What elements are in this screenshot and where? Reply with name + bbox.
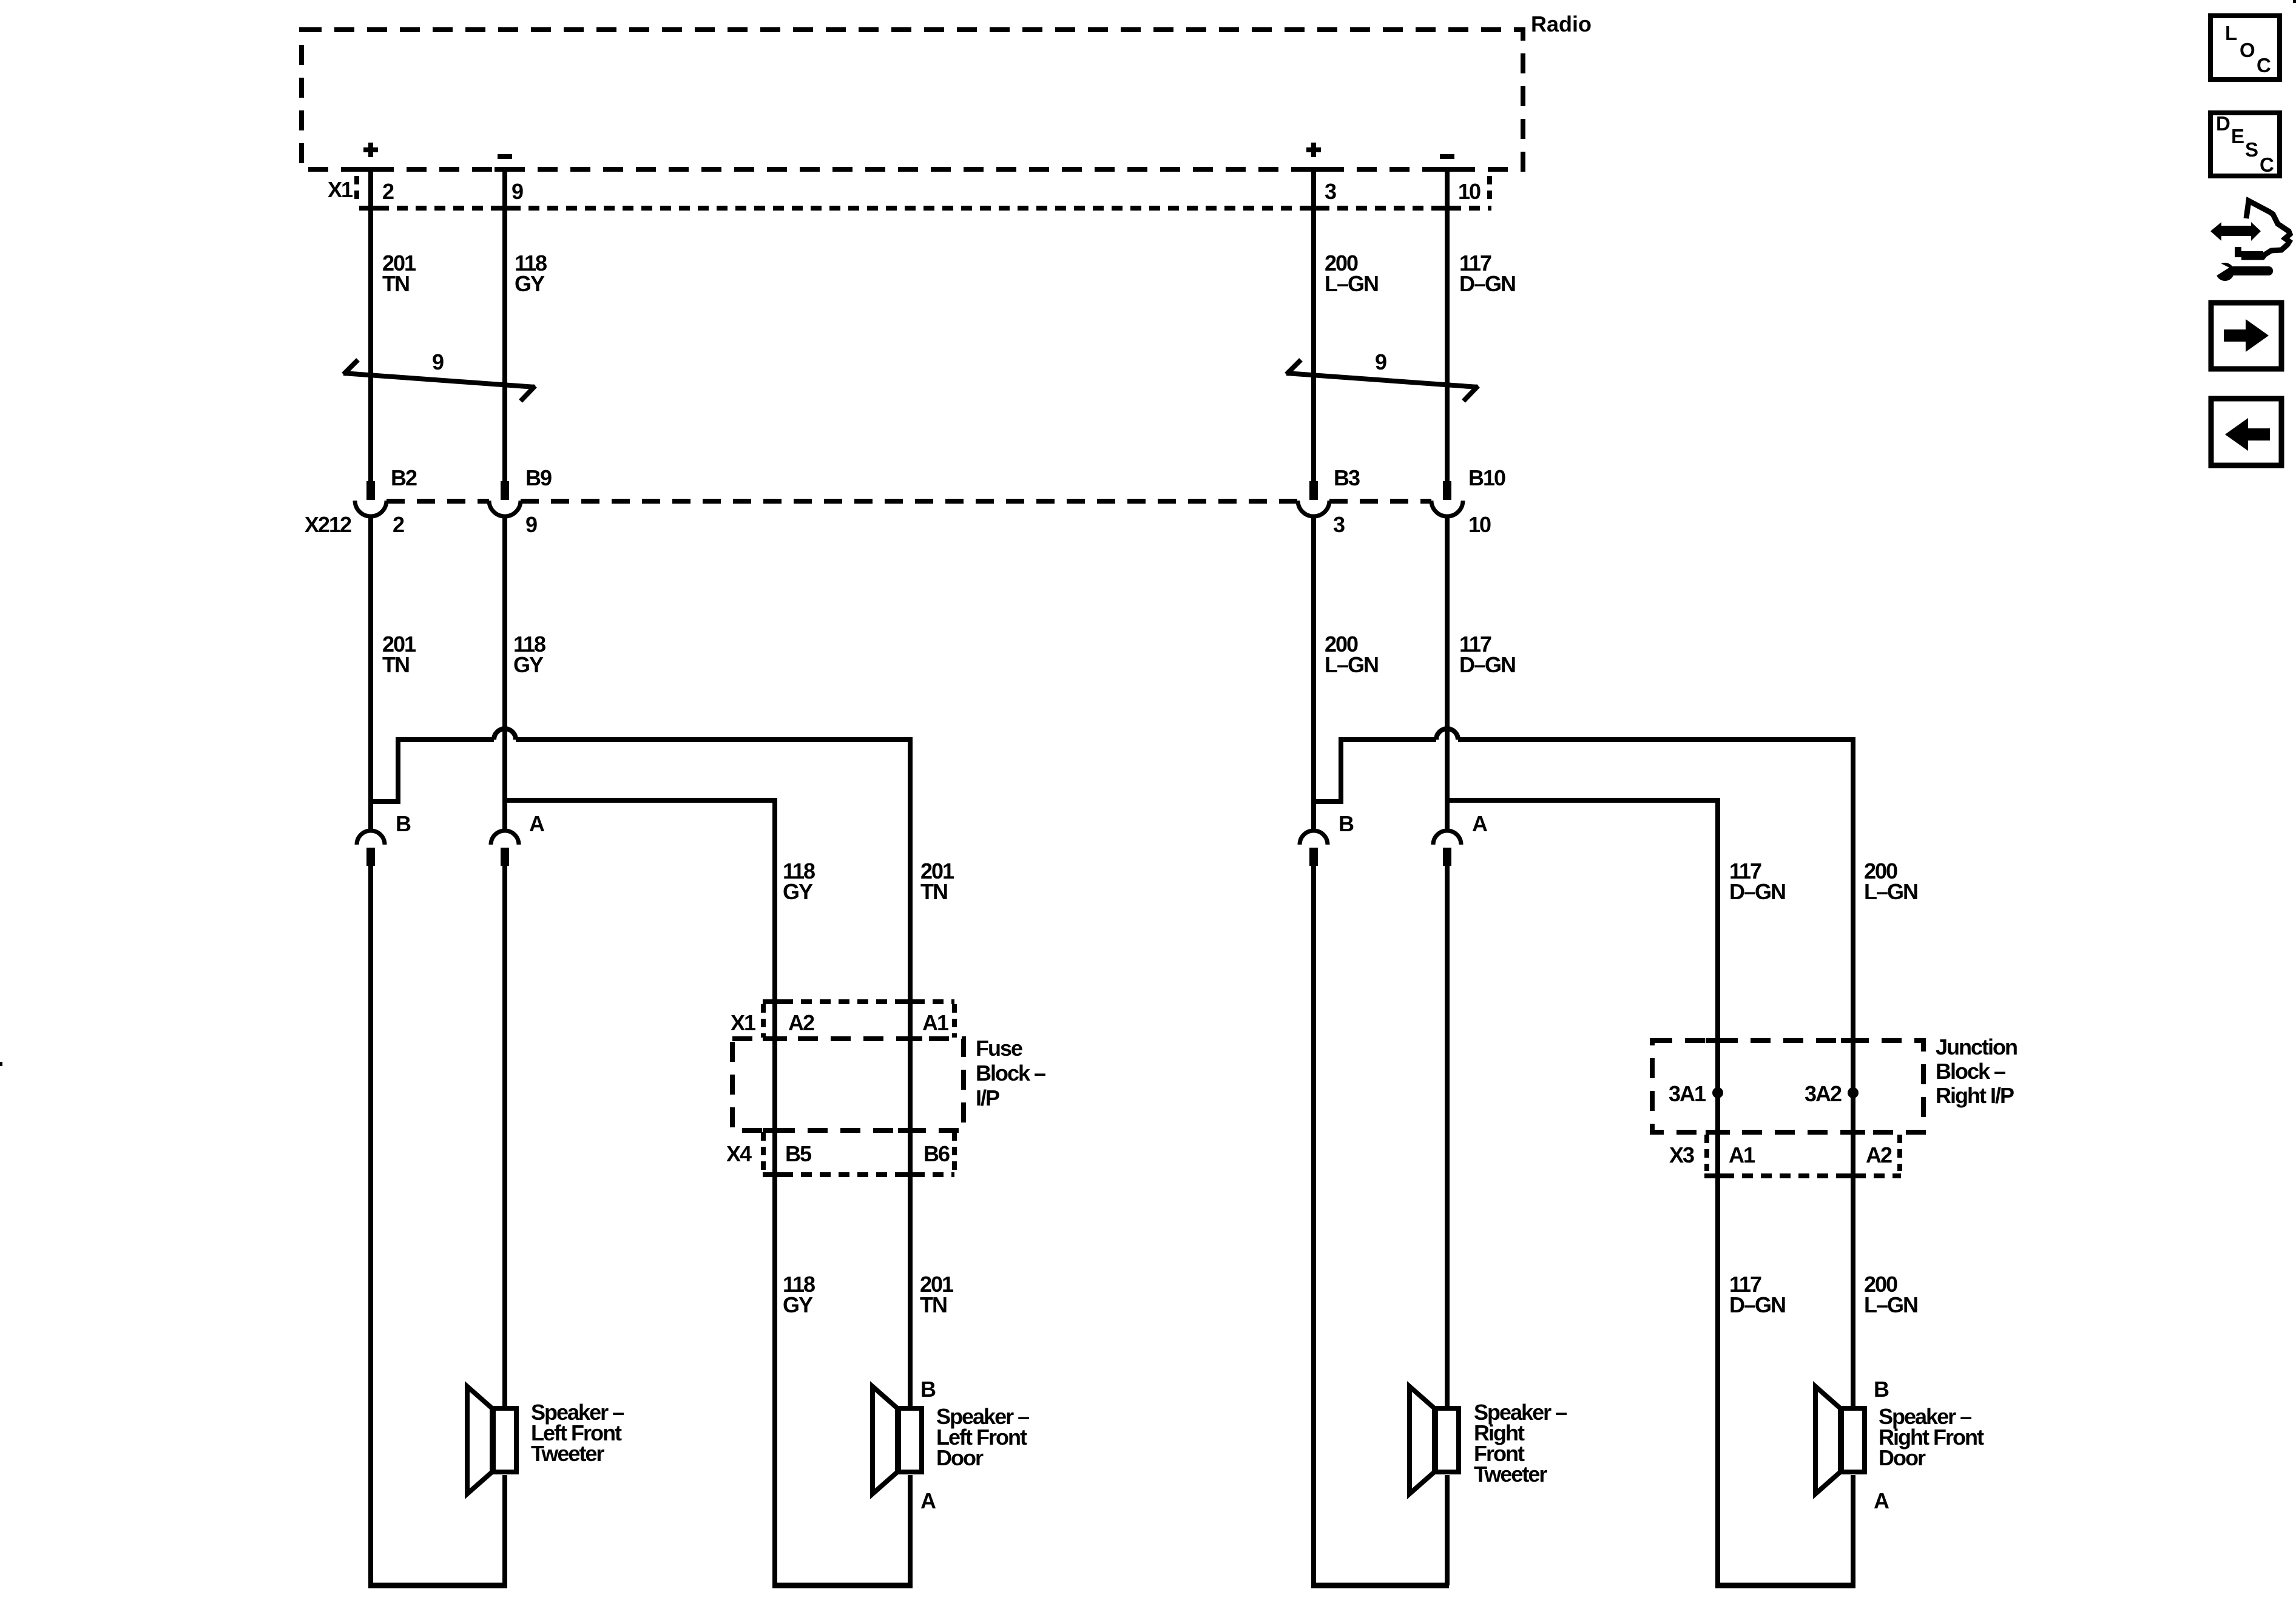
terminal B9 (male pin + female socket at X212, wire x=832) [489, 481, 521, 516]
svg-text:TN: TN [382, 652, 409, 677]
terminal A right (female socket + male pin, tweeter harness) [1433, 831, 1461, 866]
wire label 201 TN (2) [382, 632, 416, 677]
wire 201 TN tweeter leg (terminal B down to bottom rail) [368, 866, 373, 1585]
node 3A2 label [1805, 1081, 1842, 1106]
pin B3 label [1334, 465, 1360, 490]
wire label 117 D-GN (below junction block) [1729, 1272, 1785, 1317]
svg-text:3A1: 3A1 [1669, 1081, 1706, 1106]
label Fuse Block - I/P [976, 1036, 1045, 1110]
wire 201 TN (circuit 201, radio pin 2 down to X212 pin 2) [368, 167, 373, 481]
svg-text:9: 9 [432, 349, 444, 374]
wire label 117 D-GN (door drop) [1729, 859, 1785, 904]
label Speaker - Left Front Door [936, 1404, 1029, 1470]
connector X4 (fuse block lower band) [763, 1132, 954, 1177]
svg-text:Door: Door [1879, 1445, 1926, 1470]
polarity - (radio left-front return, pin 9) [498, 154, 512, 159]
wire bottom rail (right front door return) [1715, 1583, 1855, 1588]
terminal A left (female socket + male pin, tweeter harness) [491, 831, 519, 866]
wire label 201 TN [382, 251, 416, 296]
harness marker 9 (right pair, slanted crossing line with hooks) [1286, 360, 1478, 401]
pin B9 label [525, 465, 552, 490]
svg-text:10: 10 [1458, 179, 1481, 204]
wire label 118 GY (door drop) [783, 859, 815, 904]
svg-text:A: A [920, 1488, 936, 1513]
wire 118 GY (X212 pin 9 down to splice node) [502, 516, 507, 831]
sidebar icon hand-with-wrench (wrench) [2213, 260, 2273, 281]
harness marker 9 label (right) [1375, 349, 1386, 374]
wire label 118 GY [515, 251, 547, 296]
wire 117 D-GN tweeter leg (terminal A down to tweeter + terminal) [1445, 866, 1450, 1406]
svg-text:9: 9 [1375, 349, 1386, 374]
wire branch 118 GY to left front door speaker [505, 800, 775, 1585]
svg-text:C: C [2260, 154, 2274, 176]
svg-text:O: O [2240, 39, 2255, 61]
terminal B10 (male pin + female socket at X212, wire x=2385) [1431, 481, 1463, 516]
svg-text:Right I/P: Right I/P [1936, 1083, 2014, 1108]
svg-text:Block –: Block – [1936, 1059, 2005, 1084]
svg-text:Tweeter: Tweeter [1474, 1462, 1547, 1487]
pin A2 label (junction block) [1866, 1143, 1892, 1167]
connector X3 (junction block lower band) [1704, 1135, 1901, 1178]
svg-text:X212: X212 [305, 512, 351, 537]
svg-text:X4: X4 [726, 1141, 752, 1166]
wire branch 117 D-GN to right front door speaker [1447, 800, 1718, 1585]
sidebar icon LOC (box) [2210, 16, 2280, 79]
label Radio [1531, 12, 1592, 36]
sidebar icon next-page (right arrow box) [2211, 303, 2281, 369]
sidebar icon previous-page (left arrow box) [2211, 399, 2281, 465]
svg-text:I/P: I/P [976, 1085, 999, 1110]
svg-text:D–GN: D–GN [1459, 271, 1515, 296]
svg-text:TN: TN [920, 879, 947, 904]
node 3A1 label [1669, 1081, 1706, 1106]
svg-text:Junction: Junction [1936, 1035, 2017, 1059]
wire label 200 L-GN (door drop) [1864, 859, 1917, 904]
svg-text:B2: B2 [391, 465, 417, 490]
label Speaker - Left Front Tweeter [531, 1400, 624, 1466]
svg-text:D: D [2216, 112, 2230, 135]
svg-text:B3: B3 [1334, 465, 1360, 490]
page edge mark (left) [0, 1062, 2, 1066]
sidebar icon DESC (box) [2210, 112, 2280, 176]
svg-text:L–GN: L–GN [1864, 879, 1917, 904]
sidebar icon hand-with-wrench (double arrow) [2210, 222, 2261, 241]
svg-text:3: 3 [1333, 512, 1345, 537]
label X212 [305, 512, 351, 537]
wire riser to left front door speaker terminal A [908, 1475, 913, 1585]
wire riser to left front tweeter - terminal [502, 1475, 507, 1585]
label Speaker - Right Front Tweeter [1474, 1400, 1567, 1487]
pin A2 label (fuse block) [788, 1010, 814, 1035]
pin 10 label (X1) [1458, 179, 1481, 204]
svg-text:X1: X1 [731, 1010, 756, 1035]
speaker - left front door (symbol) [873, 1386, 922, 1494]
terminal B left (female socket + male pin, tweeter harness) [357, 831, 385, 866]
pin 9 label (X1) [512, 179, 523, 204]
svg-text:L–GN: L–GN [1325, 652, 1378, 677]
label X1 [328, 177, 353, 202]
label Junction Block - Right I/P [1936, 1035, 2017, 1108]
pin 9 label (X212 lower) [525, 512, 537, 537]
svg-text:A: A [529, 811, 545, 836]
label Speaker - Right Front Door [1879, 1404, 1984, 1470]
svg-text:B: B [396, 811, 411, 836]
polarity - (radio right-front return, pin 10) [1440, 154, 1454, 159]
svg-text:E: E [2231, 125, 2244, 147]
svg-text:D–GN: D–GN [1729, 1292, 1785, 1317]
wire 201 TN (X212 pin 2 down to splice node) [368, 516, 373, 831]
wire 118 GY tweeter leg (terminal A down to tweeter + terminal) [502, 866, 507, 1406]
wire 200 L-GN (X212 pin 3 down to splice node) [1311, 516, 1316, 831]
terminal B label (right front door speaker) [1874, 1377, 1889, 1402]
wire bottom rail (left front tweeter return) [368, 1583, 507, 1588]
terminal B label (right) [1339, 811, 1354, 836]
pin 3 label (X212 lower) [1333, 512, 1345, 537]
junction block - right I/P (dashed component box) [1652, 1038, 1923, 1135]
terminal B2 (male pin + female socket at X212, wire x=611) [355, 481, 387, 516]
svg-text:3: 3 [1325, 179, 1336, 204]
svg-text:2: 2 [382, 179, 394, 204]
pin B2 label [391, 465, 417, 490]
pin 2 label (X212 lower) [393, 512, 404, 537]
pin A1 label (fuse block) [922, 1010, 949, 1035]
svg-text:A: A [1472, 811, 1488, 836]
svg-text:TN: TN [920, 1292, 947, 1317]
wire label 201 TN (door drop) [920, 859, 954, 904]
wire 200 L-GN tweeter leg (terminal B down to bottom rail) [1311, 866, 1316, 1585]
wire label 118 GY (below fuse block) [783, 1272, 815, 1317]
connector X1 (radio harness connector, dashed band) [357, 167, 1491, 211]
pin B6 label (fuse block) [923, 1141, 950, 1166]
terminal B3 (male pin + female socket at X212, wire x=2165) [1298, 481, 1329, 516]
speaker - left front tweeter (symbol) [467, 1386, 516, 1494]
wire label 117 D-GN [1459, 251, 1515, 296]
terminal A label (left) [529, 811, 545, 836]
svg-text:GY: GY [513, 652, 544, 677]
harness marker 9 (left pair, slanted crossing line with hooks) [343, 360, 535, 401]
page corner mark (top right) [2293, 0, 2296, 3]
svg-text:10: 10 [1468, 512, 1491, 537]
svg-text:C: C [2257, 54, 2271, 76]
wire riser to right front tweeter - terminal [1445, 1475, 1450, 1585]
sidebar icon hand-with-wrench (hand outline) [2235, 201, 2290, 257]
wire label 117 D-GN (2) [1459, 632, 1515, 677]
pin B5 label (fuse block) [785, 1141, 812, 1166]
wire label 200 L-GN [1325, 251, 1378, 296]
svg-text:GY: GY [515, 271, 545, 296]
terminal A label (right front door speaker) [1874, 1488, 1889, 1513]
speaker - right front door (symbol) [1815, 1386, 1865, 1494]
svg-text:B9: B9 [525, 465, 552, 490]
svg-text:A2: A2 [1866, 1143, 1892, 1167]
polarity + (radio right-front output, pin 3) [1306, 143, 1321, 157]
svg-text:L–GN: L–GN [1325, 271, 1378, 296]
wire bottom rail (left front door return) [772, 1583, 913, 1588]
svg-text:A1: A1 [922, 1010, 949, 1035]
svg-text:A: A [1874, 1488, 1889, 1513]
svg-text:X1: X1 [328, 177, 353, 202]
splice node 3A2 (junction block) [1848, 1087, 1859, 1098]
svg-text:B6: B6 [923, 1141, 950, 1166]
pin A1 label (junction block) [1729, 1143, 1755, 1167]
svg-text:B10: B10 [1468, 465, 1505, 490]
wire 118 GY (circuit 118, radio pin 9 down to X212 pin 9) [502, 167, 507, 481]
svg-text:9: 9 [525, 512, 537, 537]
fuse block I/P (dashed component box) [732, 1036, 964, 1133]
label X1 (fuse block) [731, 1010, 756, 1035]
speaker - right front tweeter (symbol) [1410, 1386, 1459, 1494]
pin 3 label (X1) [1325, 179, 1336, 204]
svg-text:9: 9 [512, 179, 523, 204]
wire 117 D-GN (circuit 117, radio pin 10 down to X212 pin 10) [1445, 167, 1450, 481]
svg-text:B: B [1339, 811, 1354, 836]
svg-text:A1: A1 [1729, 1143, 1755, 1167]
svg-text:D–GN: D–GN [1459, 652, 1515, 677]
svg-text:Tweeter: Tweeter [531, 1441, 604, 1466]
label X4 (fuse block) [726, 1141, 752, 1166]
svg-text:Fuse: Fuse [976, 1036, 1022, 1061]
wire branch 201 TN to left front door speaker (hops over 118 GY) [371, 729, 910, 1406]
terminal A label (left front door speaker) [920, 1488, 936, 1513]
terminal B label (left front door speaker) [920, 1377, 936, 1402]
pin 10 label (X212 lower) [1468, 512, 1491, 537]
svg-text:A2: A2 [788, 1010, 814, 1035]
svg-text:B: B [1874, 1377, 1889, 1402]
svg-text:L: L [2225, 22, 2237, 44]
svg-text:L–GN: L–GN [1864, 1292, 1917, 1317]
svg-text:Radio: Radio [1531, 12, 1592, 36]
connector X1 (fuse block upper band) [763, 999, 954, 1038]
wire bottom rail (right front tweeter return) [1311, 1583, 1449, 1588]
svg-text:B5: B5 [785, 1141, 812, 1166]
radio (dashed component box) [302, 30, 1523, 169]
label X3 (junction block) [1669, 1143, 1694, 1167]
wire label 200 L-GN (below junction block) [1864, 1272, 1917, 1317]
svg-text:Block –: Block – [976, 1061, 1045, 1085]
svg-text:B: B [920, 1377, 936, 1402]
harness marker 9 label (left) [432, 349, 444, 374]
wire label 200 L-GN (2) [1325, 632, 1378, 677]
wire branch 200 L-GN to right front door speaker (hops over 117 D-GN) [1314, 729, 1853, 1406]
wire label 118 GY (2) [513, 632, 545, 677]
terminal B label (left) [396, 811, 411, 836]
svg-text:S: S [2245, 138, 2258, 161]
polarity + (radio left-front output, pin 2) [363, 143, 378, 157]
splice node 3A1 (junction block) [1712, 1087, 1723, 1098]
pin 2 label (X1) [382, 179, 394, 204]
wire label 201 TN (below fuse block) [920, 1272, 954, 1317]
svg-text:D–GN: D–GN [1729, 879, 1785, 904]
svg-text:X3: X3 [1669, 1143, 1694, 1167]
wire riser to right front door speaker terminal A [1851, 1475, 1855, 1585]
svg-text:3A2: 3A2 [1805, 1081, 1842, 1106]
svg-text:2: 2 [393, 512, 404, 537]
terminal B right (female socket + male pin, tweeter harness) [1300, 831, 1328, 866]
wire 117 D-GN (X212 pin 10 down to splice node) [1445, 516, 1450, 831]
svg-text:GY: GY [783, 879, 813, 904]
wire 200 L-GN (circuit 200, radio pin 3 down to X212 pin 3) [1311, 167, 1316, 481]
svg-text:GY: GY [783, 1292, 813, 1317]
connector X212 (in-line connector, dashed line) [387, 499, 1431, 504]
svg-text:TN: TN [382, 271, 409, 296]
terminal A label (right) [1472, 811, 1488, 836]
pin B10 label [1468, 465, 1505, 490]
svg-text:Door: Door [936, 1445, 984, 1470]
